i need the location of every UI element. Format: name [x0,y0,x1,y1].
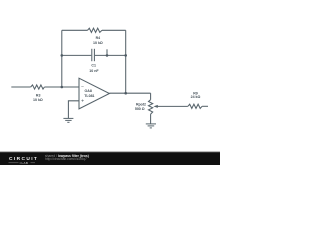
svg-text:10 nF: 10 nF [89,69,99,73]
svg-text:Rpot2: Rpot2 [136,103,146,107]
svg-text:24 kΩ: 24 kΩ [191,95,201,99]
svg-text:http://circuitlab.com/c/z2f8q7: http://circuitlab.com/c/z2f8q7 [45,157,87,161]
svg-text:10 kΩ: 10 kΩ [93,41,103,45]
svg-text:+: + [81,99,84,105]
svg-text:−: − [81,85,84,91]
svg-text:≈LAB: ≈LAB [20,161,29,165]
svg-text:R3: R3 [36,93,41,97]
svg-text:TL081: TL081 [84,94,94,98]
svg-text:10 kΩ: 10 kΩ [33,98,43,102]
svg-text:OA8: OA8 [85,89,92,93]
svg-text:C1: C1 [91,63,96,67]
svg-text:R4: R4 [96,36,101,40]
svg-text:500 Ω: 500 Ω [135,107,145,111]
